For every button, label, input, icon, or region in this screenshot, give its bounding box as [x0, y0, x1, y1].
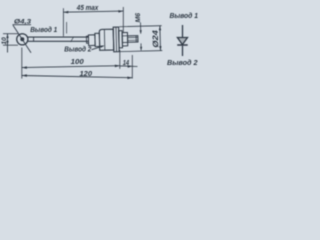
diode cathode bar [177, 44, 188, 46]
stud end chamfer [135, 36, 137, 42]
svg-text:М6: М6 [135, 13, 142, 23]
dim 100 arrow left [22, 66, 27, 69]
wire lead top line [27, 36, 89, 38]
svg-text:100: 100 [71, 57, 85, 66]
diode anode lead [182, 25, 184, 37]
dim 14 tail [132, 65, 137, 67]
dim 10 arrow down [6, 41, 8, 45]
label shelf ⌀4,3 [13, 24, 32, 26]
flange face line [103, 30, 105, 50]
svg-text:Вывод 1: Вывод 1 [170, 11, 199, 20]
dim 10 arrow up [6, 34, 8, 38]
stud thread line bottom [128, 39, 138, 41]
bottom extension left (hole center) [21, 48, 23, 79]
bottom extension right (stud end) [131, 55, 133, 79]
dim 14 line [120, 65, 133, 67]
dim ⌀24 top extension [119, 26, 161, 27]
threaded stud M6 [128, 36, 138, 43]
dim ⌀24 arrow up [159, 26, 162, 31]
dim ⌀24 arrow down [159, 46, 162, 51]
bottom extension mid (body front) [119, 50, 121, 69]
stud thread line top [128, 36, 138, 38]
lug terminal (ring) [17, 34, 28, 45]
dim 45max left extension [62, 8, 64, 36]
svg-text:10: 10 [1, 37, 8, 45]
dim 100 arrow right [115, 65, 120, 68]
hex facet line top [122, 35, 127, 37]
dim 120 arrow right [127, 77, 132, 80]
diode triangle [177, 38, 187, 45]
body group slightly tilted like the scan [86, 12, 162, 52]
svg-text:14: 14 [123, 60, 129, 67]
M6 leader upper arrow [139, 23, 141, 34]
wire lead bottom line [27, 40, 89, 42]
svg-text:Ø24: Ø24 [151, 29, 160, 47]
crimp sleeve [88, 35, 95, 46]
dim 45max arrow right [118, 10, 123, 13]
rib inner line [115, 27, 118, 52]
paper background [0, 0, 200, 84]
wire collar [86, 36, 88, 43]
step ring [95, 33, 100, 46]
dim 120 line [22, 76, 133, 78]
extra extension tick [66, 22, 68, 34]
dim 100 line [22, 66, 120, 68]
svg-text:45 max: 45 max [76, 5, 99, 12]
lug tab end tick [33, 37, 35, 42]
svg-text:Вывод 1: Вывод 1 [30, 25, 57, 34]
svg-text:Вывод 2: Вывод 2 [167, 58, 198, 67]
lug hole ⌀4,3 [20, 37, 24, 41]
dim ⌀24 line [159, 26, 162, 51]
dim 45max arrow left [63, 11, 68, 14]
hex facet line bottom [122, 41, 127, 43]
Вывод 2 arrow [100, 46, 105, 48]
svg-text:120: 120 [80, 69, 93, 78]
dim 45max line [63, 11, 123, 12]
svg-text:Вывод 2: Вывод 2 [64, 45, 92, 54]
diode cathode lead [182, 46, 184, 56]
M6 lower arrow [140, 43, 142, 50]
dim 10 extension top [3, 33, 18, 35]
flange body (rounded shoulder) [99, 29, 114, 50]
Вывод 2 leader [92, 46, 104, 50]
dim 14 arrow right [128, 65, 133, 68]
dim ⌀24 bottom extension [120, 51, 162, 52]
washer ring [119, 31, 123, 48]
wire break mark [71, 37, 74, 43]
dim 120 arrow left [22, 74, 27, 77]
svg-text:Ø4,3: Ø4,3 [14, 18, 31, 25]
dim 10 line [7, 34, 9, 53]
dim 10 extension bottom [3, 44, 18, 46]
flange rib ⌀24 [113, 27, 119, 52]
hex nut [122, 33, 128, 46]
dim 45max right extension [122, 7, 124, 33]
leader line for ⌀4,3 [13, 25, 31, 53]
